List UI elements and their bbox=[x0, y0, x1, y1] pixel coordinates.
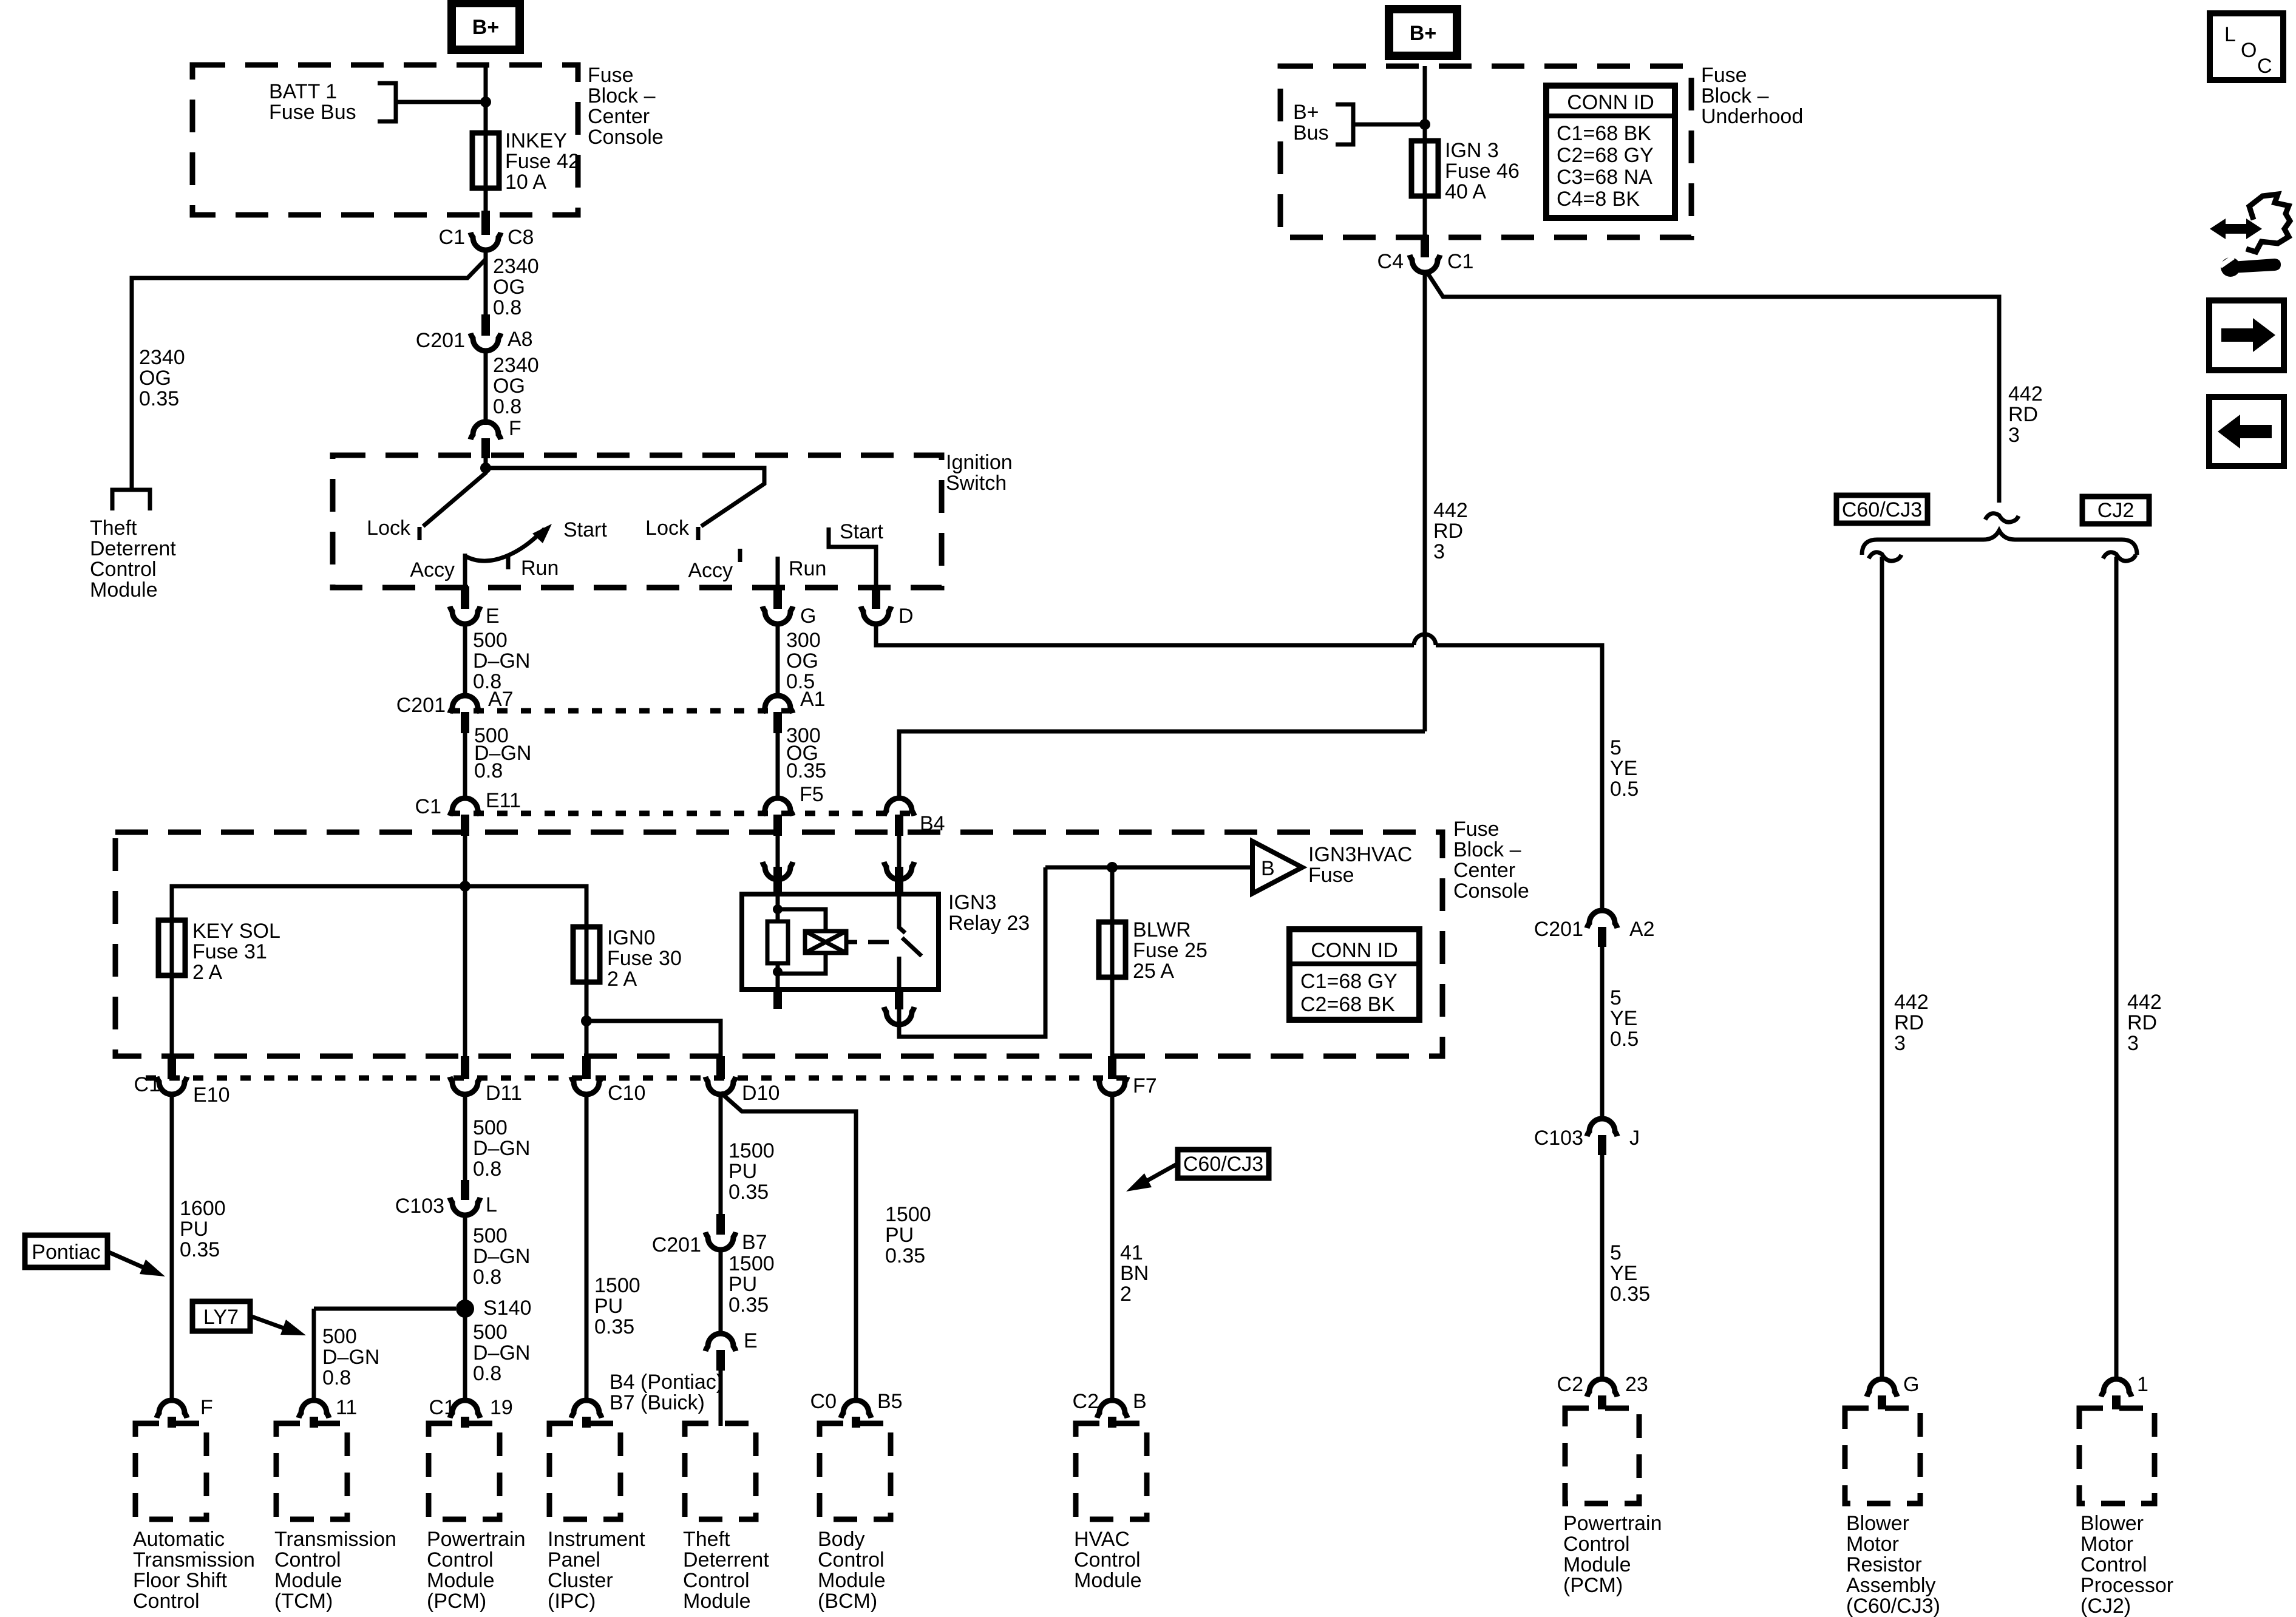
svg-text:E10: E10 bbox=[193, 1083, 230, 1107]
pin 23 stub bbox=[1598, 1395, 1606, 1409]
pin A7 stub bbox=[461, 712, 469, 733]
B+ Bus tap bbox=[1336, 104, 1425, 144]
pin 19 stub (PCM) bbox=[461, 1417, 469, 1428]
svg-text:S140: S140 bbox=[483, 1297, 531, 1320]
BATT 1 Fuse Bus tap bbox=[378, 83, 486, 121]
svg-text:C103: C103 bbox=[1534, 1127, 1583, 1150]
module box powertrain control module (right) bbox=[1565, 1408, 1639, 1503]
wire INKEY fuse to connector C1/C8 bbox=[484, 188, 488, 214]
arrowhead C60/CJ3 tag bbox=[1126, 1173, 1152, 1192]
wire B+ into underhood fuse block bbox=[1423, 66, 1427, 141]
svg-text:A2: A2 bbox=[1629, 918, 1655, 941]
pin D10 stub bbox=[716, 1056, 725, 1079]
relay coil branch top bracket bbox=[778, 909, 826, 931]
svg-text:D10: D10 bbox=[742, 1082, 779, 1105]
svg-text:Lock: Lock bbox=[367, 517, 411, 540]
wire break curl at 442 feed bbox=[1985, 514, 2019, 522]
module box instrument panel cluster bbox=[549, 1423, 620, 1519]
tag box CJ2 bbox=[2082, 497, 2149, 524]
wire rail to BLWR fuse bbox=[1110, 867, 1115, 922]
connector C0 pin B5 (BCM) bbox=[841, 1400, 871, 1418]
svg-text:D: D bbox=[898, 605, 914, 628]
contact tick Lock (pole 1) bbox=[418, 527, 422, 540]
svg-text:23: 23 bbox=[1625, 1373, 1648, 1396]
connector C1 pin E11 bbox=[450, 798, 480, 816]
wire Accy contact to pin E bbox=[463, 554, 467, 589]
connector pin B4 bbox=[884, 798, 914, 816]
connector C1 pin E10 bbox=[157, 1077, 187, 1094]
connector pin C10 bbox=[571, 1077, 602, 1094]
svg-text:Pontiac: Pontiac bbox=[32, 1241, 100, 1264]
svg-text:F: F bbox=[200, 1396, 213, 1419]
connector C103 pin L bbox=[450, 1198, 480, 1215]
svg-text:A1: A1 bbox=[800, 688, 826, 711]
svg-text:L: L bbox=[486, 1193, 497, 1216]
svg-text:L: L bbox=[2224, 23, 2236, 46]
pin D11 stub bbox=[461, 1056, 469, 1079]
connector pin D11 bbox=[450, 1077, 480, 1094]
relay internal node (bottom) bbox=[773, 967, 783, 977]
svg-text:C201: C201 bbox=[652, 1233, 701, 1256]
ignition switch housing (dashed) bbox=[333, 455, 942, 588]
relay output stub bbox=[895, 989, 903, 1009]
svg-text:E: E bbox=[744, 1329, 758, 1352]
connector pin 1 (blower processor) bbox=[2101, 1379, 2131, 1397]
pin E10 stub bbox=[168, 1056, 176, 1079]
connector C201 pin B7 bbox=[705, 1232, 736, 1250]
connector pin F of ignition switch bbox=[470, 422, 501, 439]
relay actuation dash (middle) bbox=[868, 940, 889, 944]
pin E11 stub bbox=[461, 815, 469, 836]
wire E11 into fuse block bbox=[463, 836, 467, 886]
svg-text:C2=68 GY: C2=68 GY bbox=[1557, 144, 1654, 167]
legend icon LOC box bbox=[2210, 13, 2283, 80]
svg-text:C10: C10 bbox=[608, 1082, 645, 1105]
svg-text:C1=68 BK: C1=68 BK bbox=[1557, 122, 1651, 145]
connector C201 pin A1 bbox=[763, 696, 793, 713]
pin D stub bbox=[872, 586, 880, 609]
connector C201 pin A2 bbox=[1587, 910, 1617, 928]
wire A2 to C103/J bbox=[1600, 947, 1605, 1120]
connector C103 pin J bbox=[1587, 1119, 1617, 1136]
svg-text:B+: B+ bbox=[472, 16, 499, 39]
tag Pontiac bbox=[25, 1235, 107, 1267]
pin E stub bbox=[461, 586, 469, 609]
pin 1 stub bbox=[2112, 1395, 2121, 1409]
svg-text:C201: C201 bbox=[1534, 918, 1583, 941]
svg-text:A8: A8 bbox=[508, 328, 533, 351]
pin G stub bbox=[1878, 1395, 1886, 1409]
wire pin D toward PCM feed (left part) bbox=[876, 624, 1414, 645]
svg-text:C1: C1 bbox=[429, 1396, 455, 1419]
wire B4 into fuse block bbox=[897, 836, 902, 867]
harness connector row C1 (dotted, lower) bbox=[146, 1076, 1136, 1081]
relay switch fixed contact (bottom) bbox=[897, 957, 902, 989]
fuse IGN 3 Fuse 46 40A bbox=[1411, 138, 1438, 198]
svg-text:C2: C2 bbox=[1557, 1373, 1583, 1396]
svg-text:E11: E11 bbox=[486, 789, 521, 812]
svg-text:C201: C201 bbox=[396, 694, 446, 717]
fuse block - underhood (dashed boundary) bbox=[1280, 66, 1691, 237]
junction node BATT1 bus / INKEY fuse bbox=[480, 97, 491, 107]
wire C8 to C201/A8 bbox=[484, 248, 488, 317]
svg-text:C8: C8 bbox=[508, 226, 534, 249]
wire IGN0 output to D10 bbox=[586, 1021, 721, 1059]
relay switch fixed contact (top) bbox=[899, 894, 905, 933]
legend icon arrow left box bbox=[2209, 397, 2284, 466]
pin A2 stub bbox=[1598, 927, 1606, 947]
svg-text:A7: A7 bbox=[488, 688, 514, 711]
svg-text:1: 1 bbox=[2137, 1373, 2148, 1396]
legend icon arrow right box bbox=[2209, 300, 2284, 370]
module box blower motor control processor bbox=[2079, 1408, 2155, 1503]
svg-text:C1: C1 bbox=[1447, 250, 1473, 273]
pin F5 stub bbox=[773, 815, 782, 836]
svg-text:C60/CJ3: C60/CJ3 bbox=[1842, 498, 1922, 521]
connector C2 pin B (HVAC) bbox=[1097, 1400, 1127, 1418]
wire B7 to pin E bbox=[719, 1250, 723, 1335]
tag C60/CJ3 (lower) bbox=[1178, 1150, 1269, 1178]
svg-text:F7: F7 bbox=[1133, 1074, 1157, 1097]
connector pin D10 bbox=[705, 1077, 736, 1094]
pin B7 stub bbox=[716, 1214, 725, 1235]
power feed B+ (battery positive, left) bbox=[452, 3, 520, 50]
wire 442 RD 3 to blower motor resistor assembly bbox=[1880, 557, 1884, 1380]
wire F7 to HVAC control module bbox=[1110, 1094, 1115, 1402]
wire BLWR fuse to F7 bbox=[1110, 977, 1115, 1059]
wire 442 RD 3 branch to blower feeds bbox=[1426, 271, 1999, 503]
pin B5 stub (BCM) bbox=[852, 1417, 860, 1428]
wire A7 to C1/E11 bbox=[463, 732, 467, 799]
wire 442 RD to pin B4 bbox=[899, 731, 1425, 799]
wire 442 RD 3 to blower motor control processor bbox=[2114, 557, 2119, 1380]
svg-text:Start: Start bbox=[563, 518, 607, 541]
svg-text:C1=68 GY: C1=68 GY bbox=[1300, 970, 1398, 993]
tag box C60/CJ3 bbox=[1836, 495, 1927, 523]
svg-text:Run: Run bbox=[789, 557, 826, 580]
wire F5 into fuse block bbox=[776, 836, 780, 867]
svg-text:Accy: Accy bbox=[410, 558, 455, 581]
leader line LY7 tag bbox=[250, 1316, 290, 1331]
pin E stub (theft deterrent) bbox=[716, 1350, 725, 1371]
junction node ignition feed split bbox=[480, 463, 491, 473]
svg-text:CONN ID: CONN ID bbox=[1311, 939, 1398, 962]
fuse block - center console (dashed boundary, top left) bbox=[192, 65, 578, 215]
wire J to PCM pin 23 bbox=[1600, 1155, 1605, 1380]
fuse KEY SOL Fuse 31 2A bbox=[158, 918, 185, 978]
module box powertrain control module bbox=[429, 1423, 500, 1519]
svg-text:G: G bbox=[800, 605, 816, 628]
relay coil resistor bbox=[767, 921, 788, 963]
svg-text:C: C bbox=[2257, 55, 2272, 78]
svg-text:C1: C1 bbox=[134, 1073, 160, 1096]
contact tick Run (pole 1) bbox=[506, 556, 511, 569]
pin B4 stub bbox=[895, 815, 903, 836]
svg-text:C2: C2 bbox=[1073, 1390, 1099, 1413]
module box HVAC control module bbox=[1076, 1423, 1147, 1519]
pin F stub into ignition switch bbox=[481, 438, 490, 458]
svg-text:C201: C201 bbox=[416, 329, 465, 352]
wire C10 to instrument panel cluster bbox=[585, 1094, 589, 1402]
wire hop over 442 RD wire bbox=[1414, 634, 1436, 645]
pin stub (IPC) bbox=[582, 1417, 591, 1428]
connector C4/C1 pin stub bbox=[1421, 235, 1429, 257]
svg-text:E: E bbox=[486, 605, 500, 628]
svg-text:B7: B7 bbox=[742, 1231, 767, 1254]
wire relay output up to IGN3HVAC rail bbox=[899, 867, 1045, 1037]
relay coil wire bottom bbox=[776, 963, 780, 989]
connector pin F7 bbox=[1097, 1077, 1127, 1094]
connector C4 pin C1 bbox=[1410, 255, 1440, 273]
pin J stub bbox=[1598, 1135, 1606, 1155]
pin 11 stub (TCM) bbox=[310, 1417, 318, 1428]
wire ignition pole 1 moving contact (to Lock) bbox=[423, 458, 486, 526]
module box automatic transmission floor shift control bbox=[135, 1423, 206, 1519]
wire C103/L through S140 to PCM pin 19 bbox=[463, 1215, 467, 1402]
wire start curl (CJ2 side) bbox=[2103, 552, 2136, 561]
relay switch movable blade bbox=[902, 938, 922, 956]
svg-text:B: B bbox=[1261, 857, 1275, 880]
connector pin G bbox=[763, 606, 793, 624]
relay IGN3 Relay 23 outline bbox=[742, 894, 939, 989]
svg-text:B+: B+ bbox=[1410, 22, 1436, 45]
tag LY7 bbox=[192, 1301, 250, 1331]
relay coil feed stub bbox=[773, 867, 782, 894]
rotary travel arc Accy-Run-Start (pole 1) bbox=[465, 529, 545, 561]
connector C1 pin 19 (PCM) bbox=[450, 1400, 480, 1418]
wire S140 splice to TCM (horizontal) bbox=[314, 1307, 456, 1311]
svg-text:11: 11 bbox=[336, 1396, 357, 1419]
connector pin D bbox=[861, 606, 891, 624]
connector C201 pin A7 bbox=[450, 696, 480, 713]
fuse block - center console (dashed, lower) bbox=[115, 832, 1442, 1056]
pin L stub bbox=[461, 1180, 469, 1200]
module box theft deterrent control module bbox=[685, 1423, 756, 1519]
module box body control module bbox=[820, 1423, 891, 1519]
svg-text:C4=8 BK: C4=8 BK bbox=[1557, 188, 1640, 211]
wire start curl (C60/CJ3 side) bbox=[1869, 552, 1901, 561]
contact tick Lock (pole 2) bbox=[696, 527, 701, 540]
IGN3HVAC fuse feed triangle B bbox=[1252, 841, 1302, 893]
connector pin F5 bbox=[763, 798, 793, 816]
relay solenoid coil symbol (box with X) bbox=[805, 931, 846, 953]
connector pin B4/B7 (IPC) bbox=[571, 1400, 602, 1418]
wire D10 branch to body control module bbox=[721, 1093, 856, 1402]
svg-text:C1: C1 bbox=[439, 226, 465, 249]
pin C10 stub bbox=[582, 1056, 591, 1079]
wire Start contact (pole 2) to pin D bbox=[829, 527, 876, 588]
connector pin 11 (TCM) bbox=[299, 1400, 329, 1418]
svg-text:F: F bbox=[509, 417, 521, 440]
relay internal node (top) bbox=[773, 904, 783, 914]
theft deterrent control module terminal bracket bbox=[112, 490, 150, 510]
svg-text:C0: C0 bbox=[810, 1390, 837, 1413]
pin G stub bbox=[773, 586, 782, 609]
svg-text:B: B bbox=[1133, 1390, 1147, 1413]
wire A8 to ignition switch pin F bbox=[484, 350, 488, 425]
wire IGN3 fuse to C4/C1 bbox=[1423, 196, 1427, 236]
power feed B+ (battery positive, right) bbox=[1389, 9, 1457, 56]
wire Run contact (pole 2) to pin G bbox=[776, 557, 780, 588]
wire E to C201/A7 bbox=[463, 624, 467, 697]
wire IGN0 fuse to C10 bbox=[585, 982, 589, 1059]
relay switch feed stub bbox=[895, 867, 903, 894]
power rail to KEY SOL and IGN0 fuses bbox=[172, 886, 586, 927]
svg-text:F5: F5 bbox=[800, 783, 824, 806]
wire G to A1 bbox=[776, 624, 780, 697]
CONN ID table (center console) bbox=[1289, 929, 1419, 1020]
svg-text:19: 19 bbox=[490, 1396, 513, 1419]
relay coil wire top bbox=[776, 894, 780, 921]
svg-text:C60/CJ3: C60/CJ3 bbox=[1183, 1153, 1263, 1176]
relay coil branch bottom bracket bbox=[778, 953, 826, 974]
svg-text:J: J bbox=[1629, 1127, 1640, 1150]
arrowhead LY7 tag bbox=[280, 1320, 306, 1335]
junction node BLWR fuse tap bbox=[1107, 862, 1118, 873]
wire E10 to automatic transmission floor shift control bbox=[170, 1094, 174, 1402]
svg-text:Lock: Lock bbox=[645, 517, 690, 540]
connector C2 pin 23 (PCM right) bbox=[1587, 1379, 1617, 1397]
pin F stub (ATFSC) bbox=[168, 1417, 176, 1428]
svg-text:C103: C103 bbox=[395, 1195, 444, 1218]
legend icon hand with wrench bbox=[2210, 194, 2290, 277]
connector pin F (ATFSC) bbox=[157, 1400, 187, 1418]
pin A1 stub bbox=[773, 712, 782, 733]
connector C1 pin C8 bbox=[470, 232, 501, 250]
svg-text:B5: B5 bbox=[877, 1390, 903, 1413]
connector C201/A8 pin stub bbox=[481, 314, 490, 336]
module box transmission control module bbox=[276, 1423, 347, 1519]
fuse INKEY Fuse 42 10A bbox=[472, 131, 499, 191]
wire ignition pole 2 moving contact (to Lock) bbox=[486, 468, 764, 526]
junction node B+ bus / IGN3 fuse bbox=[1419, 119, 1430, 130]
svg-text:C4: C4 bbox=[1377, 250, 1404, 273]
wire S140 splice to TCM (vertical) bbox=[312, 1309, 316, 1402]
wire KEY SOL fuse to E10 bbox=[170, 975, 174, 1059]
svg-text:C3=68 NA: C3=68 NA bbox=[1557, 166, 1652, 189]
fuse block internal connector (F5 side) bbox=[763, 862, 793, 880]
relay coil ground stub bbox=[773, 989, 782, 1009]
wire A1 to F5 bbox=[776, 732, 780, 799]
connector C1/C8 pin stub bbox=[481, 211, 490, 235]
harness connector row C1/E11-F5-B4 (dotted) bbox=[450, 811, 914, 816]
wire B+ feed into fuse block bbox=[484, 65, 488, 135]
wire pin E into theft deterrent module bbox=[719, 1371, 723, 1426]
leader line C60/CJ3 tag bbox=[1146, 1164, 1178, 1181]
wire pin D to C201/A2 (5 YE 0.5) bbox=[1436, 645, 1602, 912]
wire rail to IGN3HVAC fuse feed bbox=[1045, 866, 1251, 870]
fuse BLWR Fuse 25 25A bbox=[1099, 920, 1126, 980]
wire 442 RD 3 from C4/C1 down bbox=[1423, 271, 1427, 731]
CONN ID table (underhood) bbox=[1546, 86, 1675, 218]
fuse IGN0 Fuse 30 2A bbox=[573, 924, 600, 985]
relay output connector bbox=[884, 1007, 914, 1025]
fuse block internal connector (B4 side) bbox=[884, 862, 914, 880]
harness brace over C60/CJ3 and CJ2 bbox=[1862, 531, 2137, 555]
svg-text:CONN ID: CONN ID bbox=[1567, 91, 1654, 114]
arrowhead Pontiac tag bbox=[140, 1259, 165, 1276]
harness connector row C201 (dotted) bbox=[450, 708, 793, 714]
pin F7 stub bbox=[1108, 1056, 1116, 1079]
svg-text:C2=68 BK: C2=68 BK bbox=[1300, 993, 1395, 1016]
svg-text:C1: C1 bbox=[415, 795, 441, 818]
connector C201 pin A8 bbox=[470, 333, 501, 351]
svg-text:Start: Start bbox=[840, 520, 883, 543]
splice S140 bbox=[456, 1300, 474, 1318]
leader line Pontiac tag bbox=[107, 1252, 149, 1270]
wire rail to pin D11 bbox=[463, 886, 467, 1059]
svg-text:G: G bbox=[1903, 1373, 1919, 1396]
wire branch 2340 OG 0.35 to theft deterrent control module bbox=[132, 259, 486, 489]
svg-text:CJ2: CJ2 bbox=[2097, 499, 2134, 522]
svg-text:LY7: LY7 bbox=[203, 1306, 239, 1329]
relay actuation dash (coil side) bbox=[846, 940, 857, 944]
connector pin E bbox=[450, 606, 480, 624]
junction node rail / E11 wire bbox=[460, 881, 470, 892]
module box blower motor resistor assembly bbox=[1845, 1408, 1920, 1503]
svg-text:D11: D11 bbox=[486, 1082, 522, 1105]
arrowhead at Start position bbox=[532, 524, 552, 543]
svg-text:O: O bbox=[2241, 39, 2257, 62]
pin B stub (HVAC) bbox=[1108, 1417, 1116, 1428]
wire D10 down to C201/B7 bbox=[719, 1094, 723, 1215]
wire D11 to C103/L bbox=[463, 1094, 467, 1184]
svg-text:IgnitionSwitch: IgnitionSwitch bbox=[946, 451, 1013, 495]
svg-text:Accy: Accy bbox=[688, 559, 733, 582]
connector pin E (theft deterrent) bbox=[705, 1334, 736, 1351]
connector pin G (blower resistor) bbox=[1867, 1379, 1897, 1397]
junction node IGN0 output split bbox=[581, 1015, 592, 1026]
svg-text:Run: Run bbox=[521, 557, 559, 580]
contact tick Accy (pole 2) bbox=[738, 549, 742, 562]
